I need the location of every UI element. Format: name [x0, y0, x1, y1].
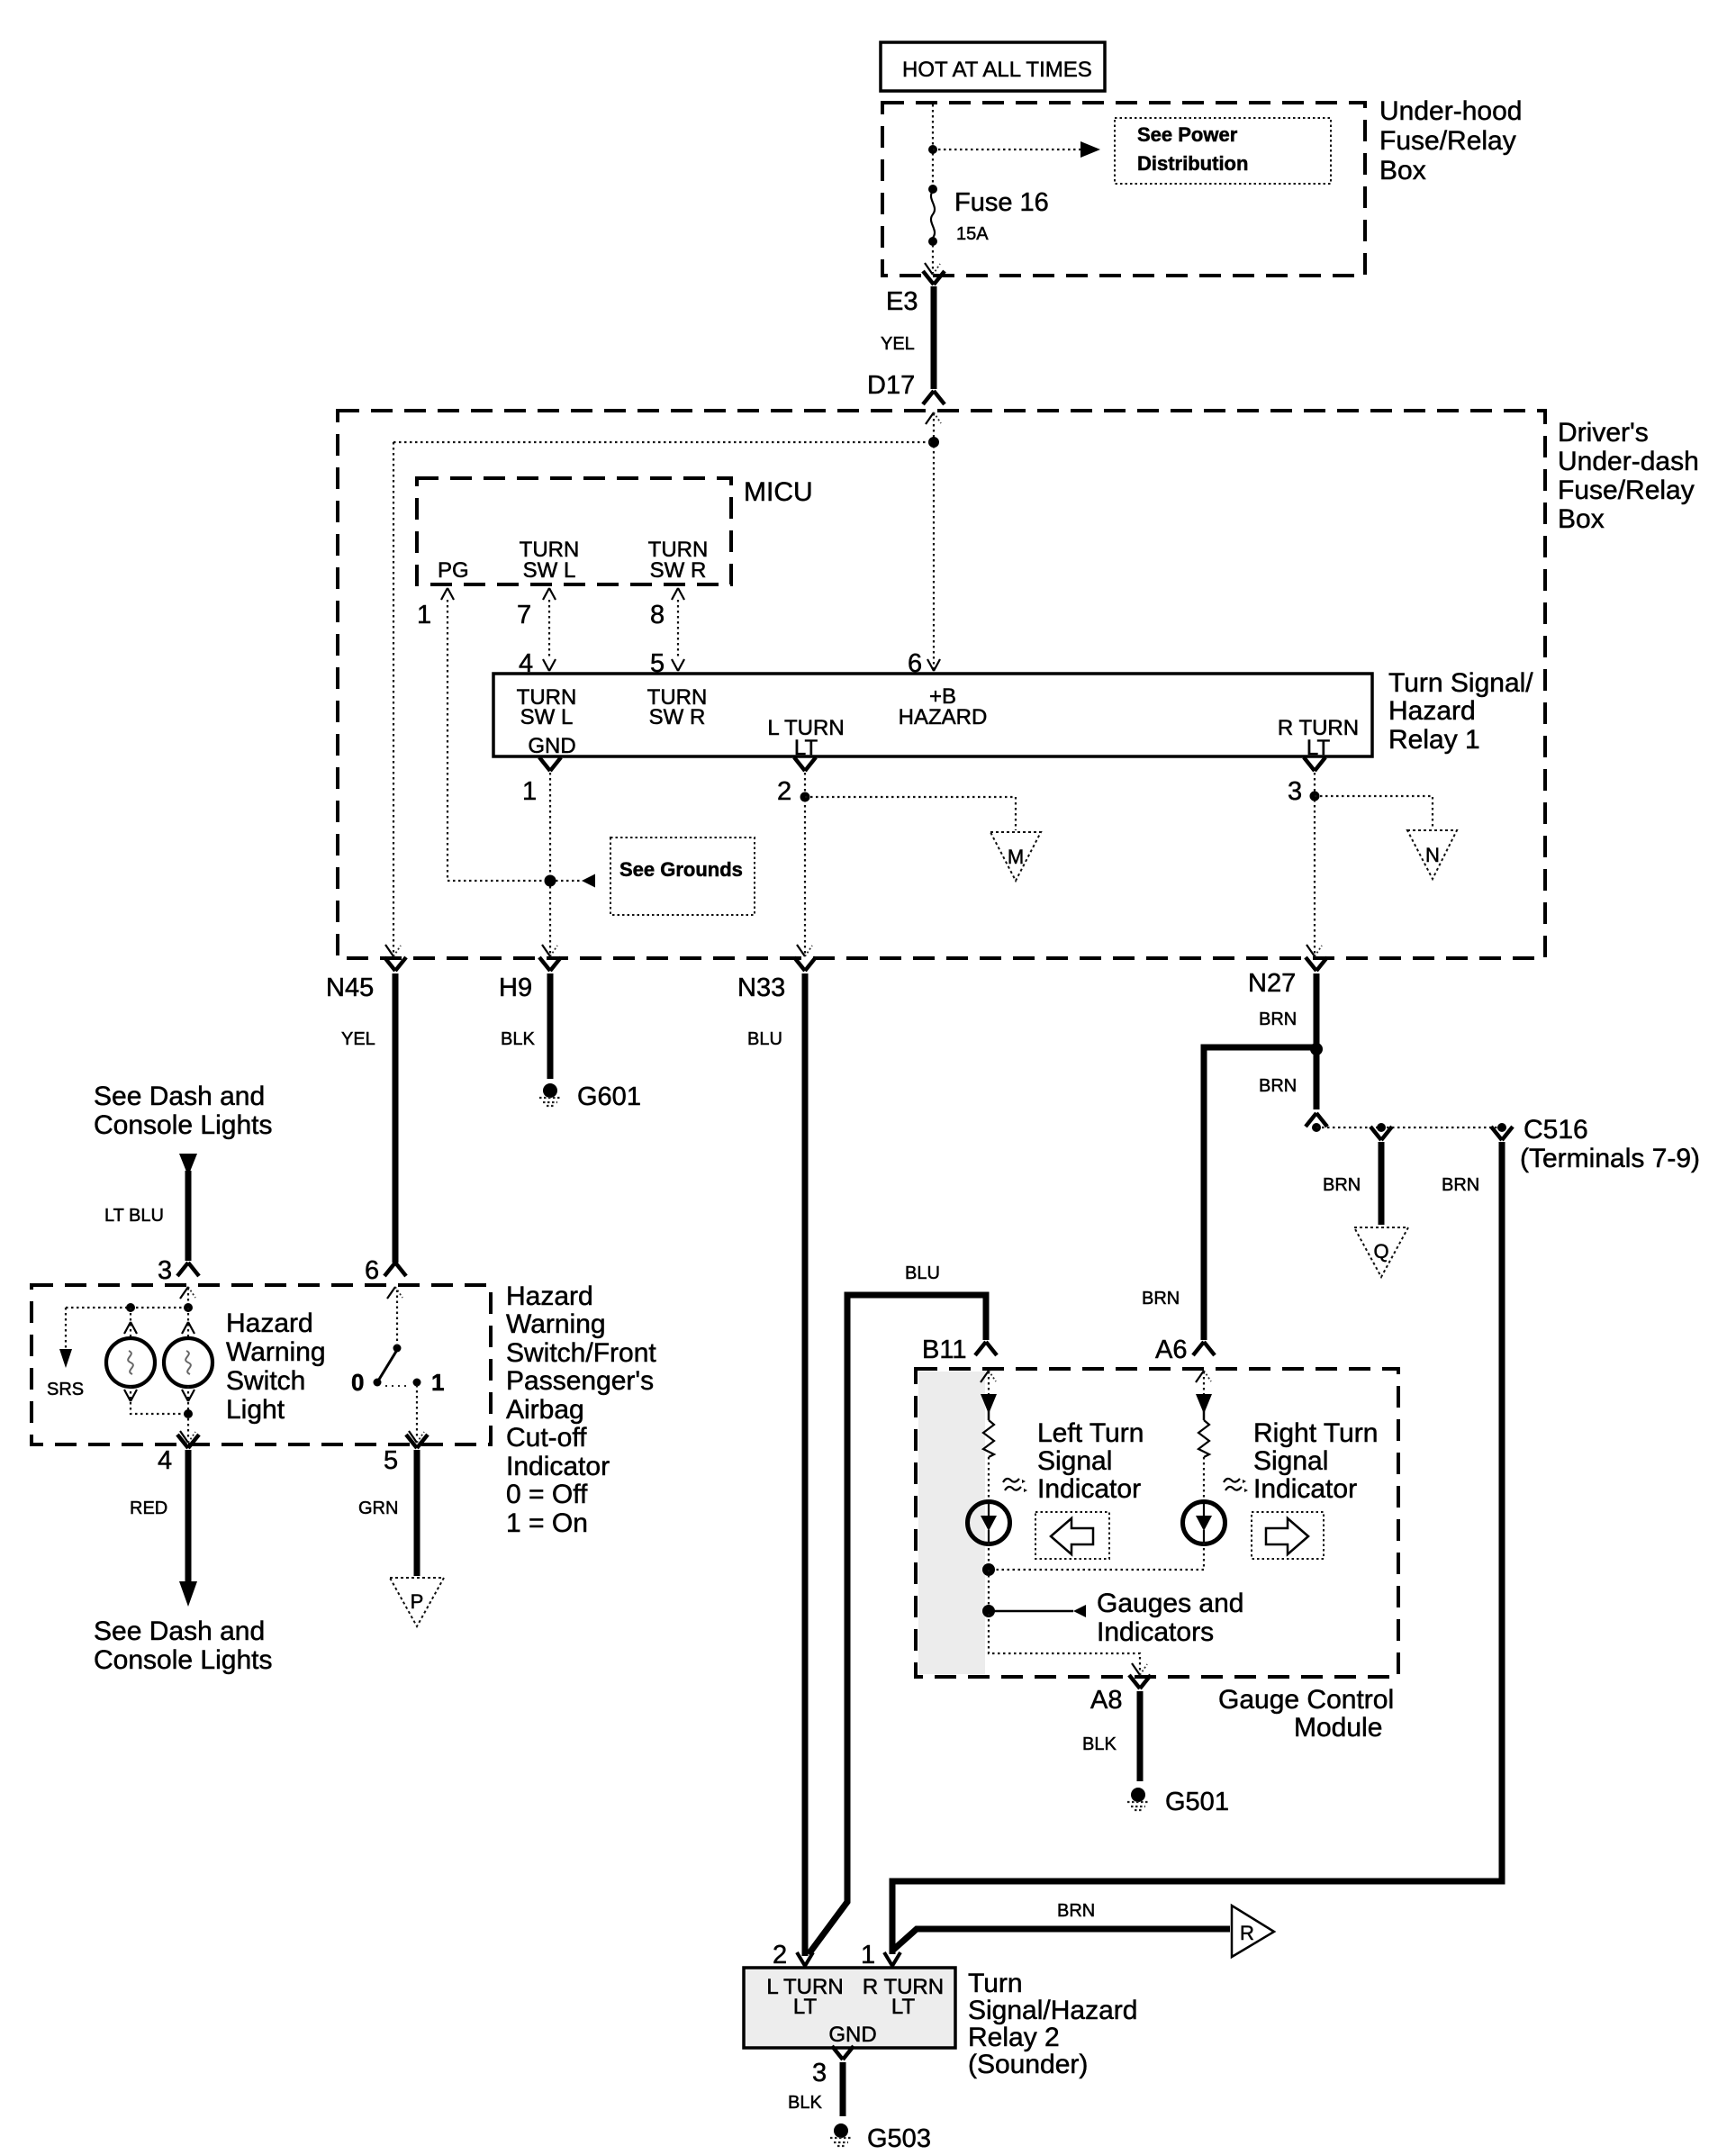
- svg-text:Indicator: Indicator: [1037, 1474, 1141, 1504]
- svg-text:Switch: Switch: [226, 1366, 305, 1396]
- connector to ground Q: [1370, 1127, 1392, 1140]
- svg-text:15A: 15A: [956, 224, 989, 244]
- resistor left indicator: [983, 1420, 994, 1457]
- wire N45 drop: [393, 442, 394, 956]
- wire SRS drop: [65, 1308, 67, 1351]
- left arrow icon: [1035, 1512, 1109, 1559]
- wire top rail to N45 drop: [393, 441, 934, 443]
- arrow feed from dash lights: [179, 1154, 197, 1176]
- wire relay1-3 to N27: [1314, 773, 1316, 956]
- svg-text:Fuse/Relay: Fuse/Relay: [1558, 475, 1695, 505]
- svg-text:Module: Module: [1294, 1713, 1382, 1743]
- relay U1 Turn Signal/Hazard Relay 1: [493, 674, 1372, 756]
- wire hot feed (dotted): [932, 104, 934, 189]
- label Left Turn Signal Indicator: [1037, 1418, 1144, 1504]
- wire relay1-1 GND to H9: [549, 773, 551, 956]
- label Driver's Under-dash Fuse/Relay Box: [1558, 418, 1699, 534]
- wire PG to ground junction: [448, 600, 547, 881]
- connector relay2 pin1: [884, 1952, 900, 1966]
- wire BLU branch to B11: [809, 1295, 986, 1954]
- node lamp rail junction right: [184, 1303, 193, 1312]
- svg-text:7: 7: [517, 601, 531, 629]
- ground G501: [1127, 1788, 1149, 1810]
- connector A8: [1129, 1675, 1151, 1689]
- svg-text:B11: B11: [922, 1336, 966, 1364]
- connector N45: [384, 957, 406, 971]
- pin marks above lamps: [124, 1322, 137, 1334]
- svg-text:Driver's: Driver's: [1558, 418, 1649, 448]
- svg-text:See Dash and: See Dash and: [94, 1082, 265, 1111]
- svg-text:Hazard: Hazard: [226, 1308, 313, 1338]
- wire LED right down and across: [989, 1543, 1204, 1570]
- svg-text:GND: GND: [528, 734, 575, 758]
- svg-text:2: 2: [777, 777, 791, 806]
- svg-text:Indicator: Indicator: [1253, 1474, 1357, 1504]
- wire to gauges and indicators: [994, 1605, 1086, 1617]
- svg-text:SW L: SW L: [523, 558, 576, 583]
- See Power Distribution box: [1115, 118, 1331, 184]
- svg-text:Console Lights: Console Lights: [94, 1110, 272, 1140]
- svg-text:2: 2: [773, 1941, 787, 1969]
- label See Dash and Console Lights (bottom): [94, 1616, 272, 1675]
- svg-text:SW R: SW R: [650, 558, 707, 583]
- svg-text:Hazard: Hazard: [1388, 696, 1476, 726]
- node junction at top rail: [928, 437, 939, 448]
- wire resistor to LED right: [1203, 1457, 1205, 1502]
- svg-text:Under-dash: Under-dash: [1558, 447, 1699, 476]
- svg-text:GND: GND: [828, 2023, 876, 2047]
- flash symbol left: [1003, 1479, 1027, 1492]
- lamp hazard switch light 1: [106, 1338, 155, 1387]
- svg-text:Indicator: Indicator: [506, 1452, 610, 1481]
- connector end above C516: [1306, 1113, 1327, 1127]
- ground Q: [1354, 1227, 1408, 1277]
- border crossing mark A8: [1132, 1663, 1147, 1675]
- svg-text:Indicators: Indicators: [1097, 1617, 1214, 1647]
- border crossing mark D17: [926, 412, 941, 424]
- label Gauges and Indicators: [1097, 1589, 1243, 1647]
- svg-text:Airbag: Airbag: [506, 1395, 584, 1425]
- svg-text:BLK: BLK: [501, 1029, 535, 1049]
- label R TURN LT: [863, 1975, 944, 2019]
- svg-text:HOT AT ALL TIMES: HOT AT ALL TIMES: [902, 58, 1092, 82]
- wire YEL N45 to hazard switch 6: [393, 973, 399, 1263]
- svg-text:PG: PG: [438, 558, 469, 583]
- connector hazard pin4: [177, 1435, 199, 1448]
- svg-text:0 = Off: 0 = Off: [506, 1480, 588, 1509]
- ground P: [390, 1578, 444, 1626]
- svg-text:4: 4: [158, 1446, 172, 1475]
- svg-text:MICU: MICU: [744, 477, 813, 507]
- wire B11 into module: [988, 1372, 990, 1394]
- svg-text:P: P: [411, 1590, 424, 1613]
- svg-text:Left Turn: Left Turn: [1037, 1418, 1144, 1448]
- svg-text:Relay 1: Relay 1: [1388, 725, 1480, 755]
- connector relay1 pin2: [794, 757, 816, 771]
- ground N: [1407, 830, 1457, 879]
- border crossing marks bottom: [180, 1431, 195, 1443]
- wire lever to pin6: [396, 1288, 398, 1346]
- node C516 splice left: [1312, 1123, 1321, 1132]
- svg-text:SW R: SW R: [649, 705, 706, 729]
- svg-text:YEL: YEL: [341, 1029, 375, 1049]
- node junction to ground M: [800, 792, 810, 802]
- svg-text:G501: G501: [1165, 1788, 1229, 1816]
- svg-text:Gauge Control: Gauge Control: [1218, 1685, 1394, 1715]
- svg-text:A6: A6: [1155, 1336, 1187, 1364]
- svg-text:GRN: GRN: [358, 1499, 398, 1518]
- connector A6: [1193, 1342, 1215, 1355]
- svg-text:(Sounder): (Sounder): [968, 2050, 1088, 2079]
- wire lamp2 bottom to pin4: [187, 1386, 189, 1439]
- connector N27: [1306, 957, 1327, 971]
- wire YEL E3 to D17: [931, 286, 937, 389]
- connector hazard pin5: [406, 1435, 428, 1448]
- flash symbol right: [1224, 1479, 1248, 1492]
- wire lamp rail: [66, 1307, 188, 1308]
- node junction to power distribution: [928, 145, 937, 154]
- label See Dash and Console Lights (top): [94, 1082, 272, 1140]
- svg-text:Turn: Turn: [968, 1969, 1023, 1998]
- See Grounds box: [610, 838, 755, 915]
- svg-text:E3: E3: [886, 287, 918, 316]
- svg-text:Light: Light: [226, 1395, 285, 1425]
- svg-text:BRN: BRN: [1323, 1175, 1361, 1195]
- svg-text:0: 0: [351, 1369, 364, 1396]
- svg-text:BLU: BLU: [905, 1263, 940, 1283]
- svg-text:Warning: Warning: [506, 1309, 606, 1339]
- svg-text:LT: LT: [891, 1995, 916, 2019]
- lamp hazard switch light 2: [164, 1338, 212, 1387]
- connector relay2 pin3: [832, 2046, 854, 2060]
- svg-text:1: 1: [431, 1369, 444, 1396]
- label Hazard Warning Switch Light: [226, 1308, 326, 1425]
- wire BLU N33 to relay2 pin2: [802, 973, 809, 1956]
- svg-text:SW L: SW L: [520, 705, 574, 729]
- label Turn Signal/Hazard Relay 2 (Sounder): [968, 1969, 1137, 2079]
- hazard warning switch box: [32, 1285, 491, 1444]
- border crossing mark: [925, 263, 940, 275]
- ground G601: [539, 1083, 561, 1106]
- svg-text:N33: N33: [737, 973, 785, 1002]
- wire BLK relay2 to G503: [840, 2062, 846, 2116]
- wire MICU 7 to relay 4: [548, 600, 550, 657]
- wire to lamp1: [130, 1308, 131, 1338]
- label Gauge Control Module: [1218, 1685, 1394, 1743]
- wire GRN to ground P: [414, 1450, 420, 1576]
- node C516 splice mid: [1377, 1123, 1386, 1132]
- wire A6 into module: [1203, 1372, 1205, 1394]
- svg-text:M: M: [1008, 846, 1024, 868]
- node junction LEDs: [982, 1563, 995, 1576]
- pin mark MICU 1: [441, 588, 454, 600]
- svg-text:Warning: Warning: [226, 1337, 326, 1367]
- svg-text:5: 5: [384, 1446, 398, 1475]
- svg-text:BRN: BRN: [1259, 1010, 1297, 1029]
- shading strip: [918, 1372, 985, 1674]
- svg-text:(Terminals 7-9): (Terminals 7-9): [1520, 1144, 1700, 1173]
- arrow R: [1232, 1906, 1274, 1957]
- svg-text:Hazard: Hazard: [506, 1281, 593, 1311]
- svg-text:See Grounds: See Grounds: [619, 858, 743, 881]
- connector hazard pin3: [177, 1263, 199, 1276]
- svg-text:R: R: [1240, 1922, 1254, 1944]
- arrow SRS: [59, 1349, 72, 1368]
- connector relay1 pin3: [1304, 757, 1325, 771]
- svg-text:C516: C516: [1524, 1115, 1588, 1145]
- svg-text:G503: G503: [867, 2124, 931, 2153]
- wire LED left down: [988, 1543, 990, 1567]
- svg-text:Turn Signal/: Turn Signal/: [1388, 668, 1533, 698]
- svg-text:Signal: Signal: [1037, 1446, 1112, 1476]
- node HOT AT ALL TIMES box: [881, 42, 1105, 91]
- svg-text:Box: Box: [1379, 156, 1426, 186]
- svg-text:BLK: BLK: [1082, 1734, 1117, 1754]
- svg-text:Box: Box: [1558, 504, 1605, 534]
- wire to ground M: [805, 797, 1016, 830]
- svg-text:3: 3: [812, 2059, 827, 2087]
- label L TURN LT: [766, 1975, 843, 2019]
- switch throw dots: [385, 1385, 411, 1387]
- see grounds arrow: [556, 874, 595, 888]
- connector N33: [794, 957, 816, 971]
- svg-text:3: 3: [1288, 777, 1302, 806]
- wire to lamp2: [187, 1308, 189, 1338]
- ground G503: [830, 2123, 852, 2146]
- LED right turn indicator: [1183, 1502, 1225, 1544]
- pin marks below lamps: [124, 1390, 137, 1401]
- LED left turn indicator: [968, 1502, 1010, 1544]
- svg-text:Under-hood: Under-hood: [1379, 96, 1522, 126]
- label L TURN LT: [767, 716, 844, 760]
- under-hood fuse/relay box: [882, 103, 1365, 276]
- svg-text:Cut-off: Cut-off: [506, 1423, 587, 1453]
- label Right Turn Signal Indicator: [1253, 1418, 1378, 1504]
- border crossing marks bottom: [542, 945, 557, 956]
- arrow to dash lights: [179, 1581, 197, 1607]
- label +B HAZARD: [899, 684, 988, 729]
- pin mark relay1 4: [543, 659, 556, 671]
- pin mark MICU 7: [543, 588, 556, 600]
- wire to power distribution: [933, 149, 1080, 150]
- svg-text:BRN: BRN: [1142, 1289, 1180, 1308]
- wire LT BLU to switch pin3: [185, 1171, 192, 1261]
- svg-text:Relay 2: Relay 2: [968, 2023, 1060, 2052]
- svg-text:BLK: BLK: [788, 2093, 822, 2113]
- svg-text:SRS: SRS: [47, 1380, 84, 1399]
- svg-text:Fuse/Relay: Fuse/Relay: [1379, 126, 1516, 156]
- svg-text:1: 1: [861, 1941, 875, 1969]
- wire +B feed inside box: [933, 413, 935, 670]
- label TURN SW R (MICU): [648, 538, 709, 583]
- wire fuse to box edge: [932, 245, 934, 273]
- arrow left indicator feed: [981, 1394, 997, 1414]
- connector B11: [975, 1342, 997, 1355]
- connector E3: [923, 271, 945, 285]
- svg-text:Gauges and: Gauges and: [1097, 1589, 1243, 1618]
- svg-text:A8: A8: [1090, 1686, 1122, 1715]
- label R TURN LT: [1278, 716, 1359, 760]
- fuse F16 terminal bottom: [928, 237, 937, 246]
- svg-text:1 = On: 1 = On: [506, 1508, 588, 1538]
- connector to relay2 branch: [1491, 1127, 1513, 1140]
- wire MICU 8 to relay 5: [677, 600, 679, 657]
- svg-text:N27: N27: [1248, 969, 1296, 998]
- border crossing marks top: [180, 1287, 195, 1299]
- pin mark relay1 5: [672, 659, 684, 671]
- wire pin3 into box: [187, 1288, 189, 1308]
- right arrow icon: [1252, 1512, 1324, 1559]
- label TURN SW L GND: [517, 685, 577, 758]
- svg-text:8: 8: [650, 601, 665, 629]
- node lamp rail junction left: [126, 1303, 135, 1312]
- svg-text:N45: N45: [326, 973, 374, 1002]
- wire BRN relay2 pin1 to R: [891, 1929, 1230, 1951]
- border crossing mark N45: [385, 945, 401, 956]
- fuse F16 terminal top: [928, 185, 937, 194]
- node junction gauges: [982, 1605, 995, 1617]
- svg-text:1: 1: [522, 777, 537, 806]
- label Under-hood Fuse/Relay Box: [1379, 96, 1522, 186]
- node C516 splice right: [1497, 1123, 1506, 1132]
- ground M: [990, 832, 1041, 881]
- svg-text:Console Lights: Console Lights: [94, 1645, 272, 1675]
- label C516 (Terminals 7-9): [1520, 1115, 1700, 1173]
- svg-text:Passenger's: Passenger's: [506, 1366, 654, 1396]
- driver's under-dash fuse/relay box: [338, 411, 1545, 958]
- svg-text:Fuse 16: Fuse 16: [954, 188, 1049, 217]
- svg-text:LT: LT: [1307, 736, 1331, 760]
- connector D17: [923, 391, 945, 404]
- wire BLK H9 to G601: [547, 973, 554, 1079]
- border crossing marks top: [981, 1371, 996, 1382]
- wire BRN N27 down: [1314, 973, 1320, 1109]
- svg-text:G601: G601: [577, 1082, 641, 1111]
- fuse 16 element: [931, 191, 935, 238]
- pin mark MICU 8: [672, 588, 684, 600]
- node lamp bottom junction: [184, 1409, 193, 1418]
- wire lamp1 bottom to join: [131, 1386, 188, 1414]
- svg-text:3: 3: [158, 1256, 172, 1285]
- wire resistor to LED: [988, 1457, 990, 1502]
- label TURN SW L (MICU): [520, 538, 580, 583]
- svg-text:1: 1: [417, 601, 431, 629]
- svg-text:RED: RED: [130, 1499, 167, 1518]
- label Turn Signal/Hazard Relay 1: [1388, 668, 1533, 755]
- connector relay1 pin1: [539, 757, 561, 771]
- label Hazard Warning Switch/Front Passenger's Airbag Cut-off Indicator: [506, 1281, 656, 1538]
- svg-text:Signal: Signal: [1253, 1446, 1328, 1476]
- wire C516 bus dotted: [1316, 1127, 1502, 1128]
- wire BRN to ground Q: [1379, 1142, 1385, 1225]
- switch lever: [374, 1345, 402, 1387]
- node junction ground PG/GND: [545, 875, 556, 887]
- svg-text:LT BLU: LT BLU: [104, 1206, 164, 1226]
- svg-text:Right Turn: Right Turn: [1253, 1418, 1378, 1448]
- svg-text:Signal/Hazard: Signal/Hazard: [968, 1996, 1137, 2025]
- wire BRN C516 to relay2 pin1: [892, 1142, 1502, 1954]
- label TURN SW R: [647, 685, 708, 729]
- relay K2 Turn Signal/Hazard Relay 2 box: [744, 1968, 955, 2048]
- svg-text:BRN: BRN: [1259, 1076, 1297, 1096]
- svg-text:LT: LT: [793, 1995, 818, 2019]
- svg-text:D17: D17: [867, 371, 915, 400]
- svg-text:Switch/Front: Switch/Front: [506, 1338, 656, 1368]
- node junction to ground N: [1310, 792, 1320, 801]
- wire relay1-2 to N33: [804, 773, 806, 956]
- resistor right indicator: [1198, 1420, 1209, 1457]
- MICU box: [417, 478, 731, 584]
- svg-text:Q: Q: [1373, 1240, 1388, 1263]
- svg-text:H9: H9: [499, 973, 532, 1002]
- svg-text:6: 6: [365, 1256, 379, 1285]
- svg-text:YEL: YEL: [881, 334, 915, 354]
- node junction N27 branch: [1310, 1043, 1323, 1055]
- connector H9: [539, 957, 561, 971]
- wire junction down: [988, 1570, 990, 1608]
- wire to A8: [989, 1614, 1140, 1671]
- arrow right indicator feed: [1196, 1394, 1212, 1414]
- wire RED to dash lights: [185, 1450, 192, 1581]
- svg-text:Distribution: Distribution: [1137, 152, 1248, 175]
- svg-text:HAZARD: HAZARD: [899, 705, 988, 729]
- connector hazard pin6: [384, 1263, 406, 1276]
- connector relay2 pin2: [797, 1952, 813, 1966]
- wire BLK A8 to G501: [1137, 1691, 1144, 1781]
- switch 1 contact: [413, 1379, 421, 1387]
- svg-text:BRN: BRN: [1442, 1175, 1479, 1195]
- wire contact1 to pin5: [416, 1385, 418, 1439]
- pin mark relay1 6: [927, 659, 940, 671]
- svg-text:See Power: See Power: [1137, 123, 1238, 146]
- gauge control module box: [916, 1369, 1398, 1677]
- wire to ground N: [1315, 796, 1433, 828]
- svg-text:N: N: [1425, 844, 1440, 866]
- svg-text:BRN: BRN: [1057, 1901, 1095, 1921]
- wire BRN branch to A6: [1204, 1047, 1316, 1340]
- svg-text:BLU: BLU: [747, 1029, 782, 1049]
- svg-text:See Dash and: See Dash and: [94, 1616, 265, 1646]
